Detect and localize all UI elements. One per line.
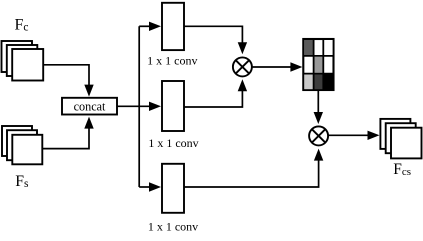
multiply node 2: [309, 126, 328, 145]
feature map stack Fcs: [380, 119, 421, 158]
svg-text:1 x 1 conv: 1 x 1 conv: [148, 219, 198, 233]
arrowhead into multiply1 bottom: [238, 79, 247, 91]
concat box: [62, 98, 117, 115]
wire multiply2 to Fcs: [328, 134, 368, 136]
wire middle conv to multiply1: [184, 90, 242, 107]
wire grid to multiply2: [317, 90, 319, 113]
svg-text:1 x 1 conv: 1 x 1 conv: [148, 136, 198, 150]
wire branch to top conv: [139, 25, 150, 27]
wire bottom conv to multiply2: [184, 160, 319, 188]
arrowhead into concat bottom: [84, 117, 93, 129]
conv box middle: [162, 81, 184, 131]
arrowhead into bottom conv: [149, 182, 161, 191]
arrowhead into Fcs: [368, 131, 380, 140]
arrowhead into multiply2 bottom: [314, 149, 323, 161]
conv box bottom: [162, 164, 184, 213]
arrowhead into top conv: [149, 22, 161, 31]
wire Fs to concat: [42, 127, 89, 149]
distribution wire vertical: [138, 26, 140, 187]
svg-text:1 x 1 conv: 1 x 1 conv: [147, 54, 197, 68]
multiply node 1: [233, 57, 252, 76]
feature map stack Fc: [2, 41, 44, 81]
arrowhead into multiply1 top: [238, 42, 247, 54]
conv box top: [162, 3, 184, 50]
arrowhead into multiply2 top: [314, 112, 323, 124]
svg-text:concat: concat: [74, 99, 106, 113]
wire multiply1 to grid: [252, 66, 292, 68]
wire top conv to multiply1: [184, 26, 242, 43]
wire concat to middle conv: [117, 105, 150, 107]
wire Fc to concat: [43, 65, 89, 86]
arrowhead into concat top: [84, 85, 93, 97]
feature map stack Fs: [2, 126, 42, 164]
attention map grid: [303, 39, 333, 90]
arrowhead into grid: [290, 62, 302, 71]
wire branch to bottom conv: [139, 186, 150, 188]
arrowhead into middle conv: [149, 102, 161, 111]
